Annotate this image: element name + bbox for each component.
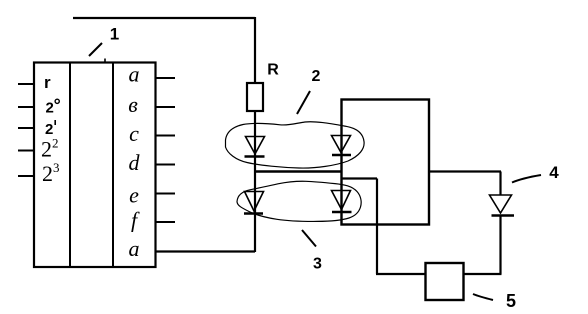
wire vertical down to resistor R: [254, 17, 256, 84]
wire top horizontal from above decoder to resistor: [73, 17, 255, 19]
decoder inner divider left: [69, 63, 71, 268]
decoder inner divider right: [112, 63, 114, 268]
leader line for 2: [297, 91, 310, 114]
input pin 2^1: [18, 127, 34, 129]
svg-text:R: R: [267, 62, 279, 79]
group loop 3 (hand-drawn ellipse): [237, 181, 361, 221]
wire output a bottom to diode column: [156, 250, 255, 252]
wire left diode column vertical: [254, 137, 256, 252]
svg-text:4: 4: [549, 163, 559, 182]
superscript 0 of 2^0: [55, 99, 59, 103]
wire from box left edge to key branch: [342, 177, 377, 179]
wire box right output: [429, 170, 501, 172]
diode VD1 top-left: [245, 137, 265, 157]
svg-text:a: a: [129, 62, 140, 87]
svg-text:a: a: [129, 236, 140, 261]
key box 5: [426, 263, 464, 300]
decoder box 1: [34, 63, 156, 268]
output pin d: [156, 164, 175, 166]
input pin 2^2: [18, 150, 34, 152]
output pin e: [156, 193, 175, 195]
wire horizontal to key box 5: [376, 273, 426, 275]
resistor R: [247, 83, 263, 111]
leader line for 4: [512, 175, 541, 183]
input pin 2^3: [18, 175, 34, 177]
output pin a: [156, 77, 175, 79]
diode VD4 bottom-right: [332, 191, 352, 213]
output pin f: [156, 221, 175, 223]
svg-text:3: 3: [313, 256, 322, 273]
input pin 2^0: [18, 106, 34, 108]
svg-text:в: в: [128, 92, 138, 117]
group loop 2 (hand-drawn ellipse): [226, 122, 365, 168]
diode VD3 top-right: [332, 136, 352, 156]
diode VD5 (4): [490, 195, 515, 216]
output pin b: [156, 106, 175, 108]
wire vertical branch down: [376, 179, 378, 275]
diode VD2 bottom-left: [244, 192, 264, 214]
wire down to diode 4: [499, 172, 501, 196]
svg-text:2: 2: [312, 68, 321, 85]
wire between columns (cathode bus): [255, 170, 342, 172]
svg-text:1: 1: [110, 25, 119, 44]
input pin r: [18, 83, 34, 85]
svg-text:r: r: [44, 73, 51, 92]
logic block box (right): [342, 100, 430, 225]
wire diode 4 down: [499, 216, 501, 275]
svg-text:2: 2: [46, 99, 54, 116]
svg-text:d: d: [129, 150, 141, 175]
svg-text:5: 5: [506, 291, 516, 311]
superscript 1 of 2^1: [54, 120, 56, 125]
tick mark on decoder top edge: [104, 59, 106, 63]
leader line for 5: [473, 294, 493, 300]
wire to key box 5 right side: [463, 273, 502, 275]
leader line for 1: [89, 43, 102, 56]
svg-text:c: c: [129, 121, 139, 146]
leader line for 3: [302, 230, 316, 247]
output pin c: [156, 135, 175, 137]
svg-text:e: e: [129, 183, 139, 208]
wire resistor to diode VD1: [254, 111, 256, 137]
